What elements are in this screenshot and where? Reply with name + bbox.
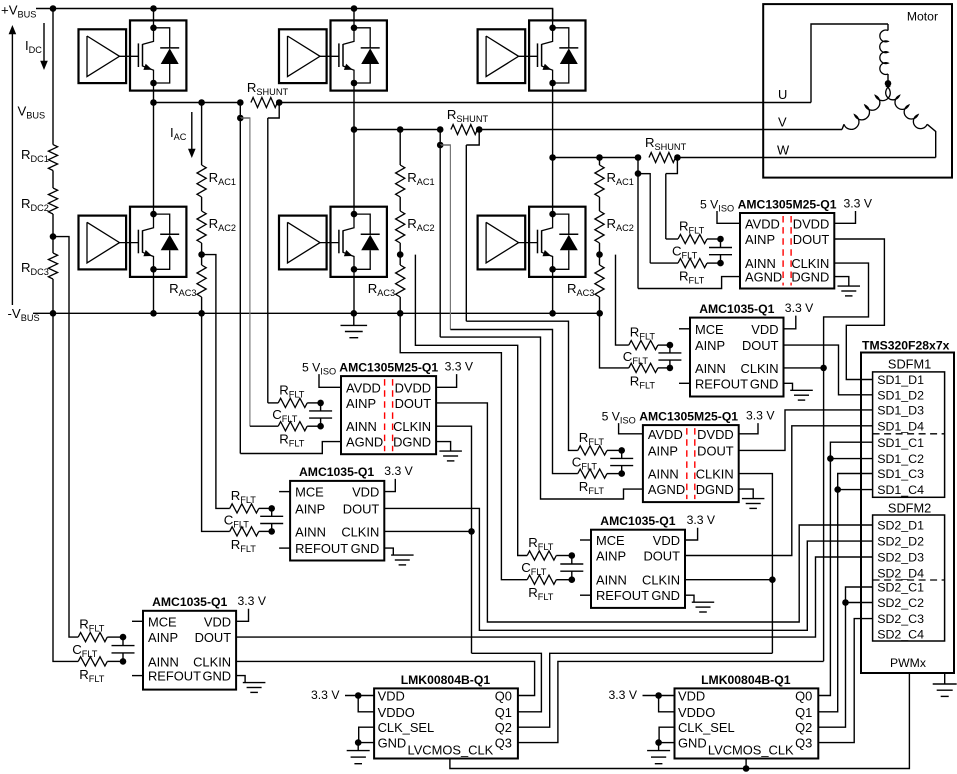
svg-text:VDD: VDD bbox=[751, 322, 778, 337]
svg-text:VDD: VDD bbox=[204, 614, 231, 629]
svg-text:SD1_C2: SD1_C2 bbox=[877, 452, 924, 466]
svg-text:CLKIN: CLKIN bbox=[741, 361, 779, 376]
svg-text:AMC1035-Q1: AMC1035-Q1 bbox=[152, 595, 227, 609]
svg-text:SD2_D2: SD2_D2 bbox=[877, 535, 924, 549]
svg-text:3.3 V: 3.3 V bbox=[238, 594, 267, 608]
svg-text:VDDO: VDDO bbox=[678, 705, 715, 720]
svg-text:REFOUT: REFOUT bbox=[695, 376, 748, 391]
svg-text:SDFM1: SDFM1 bbox=[888, 357, 931, 372]
svg-text:AGND: AGND bbox=[745, 270, 782, 285]
svg-text:3.3 V: 3.3 V bbox=[384, 464, 413, 478]
svg-text:3.3 V: 3.3 V bbox=[609, 688, 638, 702]
svg-text:DGND: DGND bbox=[791, 270, 829, 285]
svg-text:MCE: MCE bbox=[295, 485, 324, 500]
svg-text:GND: GND bbox=[651, 588, 680, 603]
svg-text:3.3 V: 3.3 V bbox=[785, 301, 814, 315]
svg-text:Q2: Q2 bbox=[495, 720, 512, 735]
svg-text:AVDD: AVDD bbox=[346, 380, 381, 395]
svg-text:Motor: Motor bbox=[907, 10, 938, 24]
svg-text:AMC1035-Q1: AMC1035-Q1 bbox=[600, 514, 675, 528]
svg-text:AMC1305M25-Q1: AMC1305M25-Q1 bbox=[738, 197, 837, 211]
svg-text:AINN: AINN bbox=[596, 573, 627, 588]
svg-text:CLKIN: CLKIN bbox=[393, 419, 431, 434]
svg-text:AGND: AGND bbox=[648, 482, 685, 497]
svg-text:PWMx: PWMx bbox=[890, 656, 926, 670]
svg-text:SD1_C1: SD1_C1 bbox=[877, 436, 924, 450]
svg-text:GND: GND bbox=[351, 541, 380, 556]
svg-text:SD2_C4: SD2_C4 bbox=[877, 627, 924, 641]
svg-text:SD1_C3: SD1_C3 bbox=[877, 467, 924, 481]
svg-text:GND: GND bbox=[378, 736, 407, 751]
svg-text:AVDD: AVDD bbox=[648, 427, 683, 442]
svg-text:REFOUT: REFOUT bbox=[148, 669, 201, 684]
svg-text:VDD: VDD bbox=[352, 485, 379, 500]
svg-text:DGND: DGND bbox=[393, 435, 431, 450]
svg-text:Q0: Q0 bbox=[495, 689, 512, 704]
svg-text:AINP: AINP bbox=[148, 630, 178, 645]
svg-text:SD1_D2: SD1_D2 bbox=[877, 388, 924, 402]
svg-text:LVCMOS_CLK: LVCMOS_CLK bbox=[408, 742, 494, 757]
svg-text:V: V bbox=[778, 115, 787, 130]
svg-text:Q1: Q1 bbox=[495, 705, 512, 720]
svg-text:AMC1305M25-Q1: AMC1305M25-Q1 bbox=[639, 409, 738, 423]
svg-text:AMC1035-Q1: AMC1035-Q1 bbox=[299, 465, 374, 479]
svg-text:CLKIN: CLKIN bbox=[696, 467, 734, 482]
svg-text:3.3 V: 3.3 V bbox=[445, 359, 474, 373]
svg-text:DGND: DGND bbox=[696, 482, 734, 497]
svg-text:Q0: Q0 bbox=[795, 689, 812, 704]
svg-text:AINP: AINP bbox=[295, 501, 325, 516]
svg-text:Q1: Q1 bbox=[795, 705, 812, 720]
svg-text:AINP: AINP bbox=[745, 232, 775, 247]
svg-text:GND: GND bbox=[202, 669, 231, 684]
svg-text:AINN: AINN bbox=[695, 361, 726, 376]
svg-text:REFOUT: REFOUT bbox=[295, 541, 348, 556]
svg-text:GND: GND bbox=[678, 736, 707, 751]
svg-text:SD1_D1: SD1_D1 bbox=[877, 373, 924, 387]
svg-text:LMK00804B-Q1: LMK00804B-Q1 bbox=[401, 673, 491, 687]
svg-text:VDD: VDD bbox=[653, 533, 680, 548]
svg-text:SD1_D4: SD1_D4 bbox=[877, 419, 924, 433]
svg-text:U: U bbox=[778, 87, 787, 102]
svg-text:AMC1305M25-Q1: AMC1305M25-Q1 bbox=[339, 360, 438, 374]
svg-text:CLKIN: CLKIN bbox=[642, 573, 680, 588]
svg-text:MCE: MCE bbox=[695, 322, 724, 337]
svg-text:AINP: AINP bbox=[596, 549, 626, 564]
svg-text:SD2_D4: SD2_D4 bbox=[877, 567, 924, 581]
svg-text:DVDD: DVDD bbox=[697, 427, 734, 442]
svg-text:AINN: AINN bbox=[295, 524, 326, 539]
svg-text:DOUT: DOUT bbox=[742, 338, 779, 353]
svg-text:AGND: AGND bbox=[346, 435, 383, 450]
svg-text:VDD: VDD bbox=[678, 689, 705, 704]
svg-text:SD2_C3: SD2_C3 bbox=[877, 612, 924, 626]
svg-text:3.3 V: 3.3 V bbox=[844, 196, 873, 210]
svg-text:SD2_C2: SD2_C2 bbox=[877, 596, 924, 610]
svg-text:3.3 V: 3.3 V bbox=[746, 408, 775, 422]
svg-text:VDD: VDD bbox=[378, 689, 405, 704]
svg-text:DOUT: DOUT bbox=[697, 443, 734, 458]
svg-text:SD2_D1: SD2_D1 bbox=[877, 519, 924, 533]
svg-text:3.3 V: 3.3 V bbox=[311, 688, 340, 702]
svg-text:CLKIN: CLKIN bbox=[193, 654, 231, 669]
svg-text:SD1_D3: SD1_D3 bbox=[877, 404, 924, 418]
svg-text:Q2: Q2 bbox=[795, 720, 812, 735]
svg-text:LMK00804B-Q1: LMK00804B-Q1 bbox=[701, 673, 791, 687]
svg-text:AINN: AINN bbox=[648, 467, 679, 482]
svg-text:AINP: AINP bbox=[648, 443, 678, 458]
svg-text:3.3 V: 3.3 V bbox=[687, 513, 716, 527]
svg-text:AINP: AINP bbox=[346, 396, 376, 411]
svg-text:AVDD: AVDD bbox=[745, 216, 780, 231]
svg-text:DOUT: DOUT bbox=[793, 232, 830, 247]
svg-text:AINP: AINP bbox=[695, 338, 725, 353]
svg-text:SDFM2: SDFM2 bbox=[888, 500, 931, 515]
svg-text:CLKIN: CLKIN bbox=[341, 524, 379, 539]
svg-text:VDDO: VDDO bbox=[378, 705, 415, 720]
svg-text:MCE: MCE bbox=[148, 614, 177, 629]
svg-text:DOUT: DOUT bbox=[395, 396, 432, 411]
svg-text:DOUT: DOUT bbox=[643, 549, 680, 564]
svg-text:LVCMOS_CLK: LVCMOS_CLK bbox=[708, 742, 794, 757]
svg-text:AINN: AINN bbox=[346, 419, 377, 434]
svg-text:DOUT: DOUT bbox=[343, 501, 380, 516]
svg-text:DVDD: DVDD bbox=[793, 216, 830, 231]
svg-text:AINN: AINN bbox=[148, 654, 179, 669]
svg-text:CLK_SEL: CLK_SEL bbox=[378, 720, 435, 735]
svg-text:CLK_SEL: CLK_SEL bbox=[678, 720, 735, 735]
svg-text:GND: GND bbox=[750, 376, 779, 391]
svg-text:MCE: MCE bbox=[596, 533, 625, 548]
svg-text:TMS320F28x7x: TMS320F28x7x bbox=[862, 338, 950, 352]
svg-text:AMC1035-Q1: AMC1035-Q1 bbox=[699, 302, 774, 316]
svg-text:REFOUT: REFOUT bbox=[596, 588, 649, 603]
svg-text:SD1_C4: SD1_C4 bbox=[877, 483, 924, 497]
svg-text:Q3: Q3 bbox=[495, 736, 512, 751]
svg-text:SD2_C1: SD2_C1 bbox=[877, 581, 924, 595]
svg-text:DOUT: DOUT bbox=[195, 630, 232, 645]
svg-text:W: W bbox=[777, 143, 790, 158]
svg-text:SD2_D3: SD2_D3 bbox=[877, 551, 924, 565]
svg-text:DVDD: DVDD bbox=[395, 380, 432, 395]
svg-text:Q3: Q3 bbox=[795, 736, 812, 751]
